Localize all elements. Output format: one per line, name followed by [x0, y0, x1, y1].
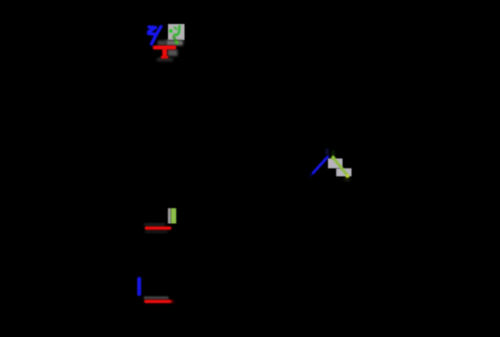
dim red tail right — [171, 300, 174, 303]
bond S diagonal (yellow-green) — [333, 158, 348, 176]
atom label Cl gray tail toward O — [158, 41, 167, 46]
S arrow tip — [331, 155, 336, 159]
faint dark green tick above S box — [332, 151, 334, 157]
faint dark mark below S box — [344, 179, 350, 182]
bond O red horizontal (upper) — [146, 227, 170, 230]
atom N (blue) glyph — [149, 27, 162, 45]
dark halo above red bond — [144, 223, 165, 226]
atom N blue vertical bar — [137, 277, 141, 296]
dim blue tail at bond end — [310, 174, 313, 177]
atom Cl (green) glyph — [169, 26, 180, 35]
atom S bar green half — [171, 208, 176, 223]
bond N=S blue diagonal — [313, 157, 328, 174]
atom O (red T shape) bottom flare — [161, 56, 169, 59]
atom label Cl highlight box — [168, 24, 185, 40]
S bright end dot — [346, 175, 350, 179]
atom label Cl gray band below box — [166, 40, 183, 46]
faint navy tick above N — [326, 149, 329, 156]
bond C=O dark gray line — [144, 296, 169, 299]
S highlight box upper — [328, 159, 343, 169]
gray patch below O stem — [157, 58, 173, 62]
dark halo below red bond — [145, 230, 168, 233]
gray patch right of O stem — [168, 50, 178, 57]
bond Cl-O (green stub) — [174, 37, 178, 44]
atom S bar gray half — [168, 208, 171, 223]
atom O (red T shape) vertical stem — [162, 49, 167, 58]
atom O (red T shape) horizontal bar — [153, 46, 176, 50]
S highlight box lower — [336, 168, 351, 176]
bond O red horizontal (lower) — [146, 300, 170, 303]
